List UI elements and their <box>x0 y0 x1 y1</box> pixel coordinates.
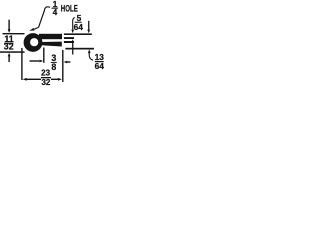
svg-text:HOLE: HOLE <box>61 3 78 14</box>
svg-text:8: 8 <box>51 62 56 72</box>
svg-text:32: 32 <box>41 78 50 87</box>
svg-text:64: 64 <box>95 61 105 71</box>
svg-text:32: 32 <box>4 42 14 52</box>
svg-text:64: 64 <box>74 22 84 32</box>
svg-text:23: 23 <box>41 69 50 78</box>
svg-text:4: 4 <box>53 7 58 17</box>
